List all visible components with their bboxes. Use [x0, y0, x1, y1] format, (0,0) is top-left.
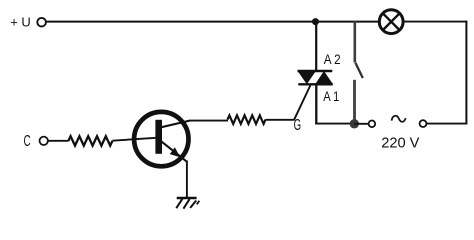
terminal +U [37, 18, 46, 27]
svg-text:G: G [294, 117, 302, 134]
wire C to R1 [48, 140, 69, 142]
wire top rail right of lamp [404, 21, 467, 23]
terminal C [40, 137, 48, 145]
AC source tilde [392, 116, 406, 122]
wire R2 to G bend [266, 119, 295, 121]
svg-text:C: C [24, 133, 31, 150]
wire junction to triac A2 [315, 22, 317, 72]
wire stub to AC terminal [354, 123, 368, 125]
terminal AC left [369, 121, 376, 128]
wire top rail left [46, 21, 378, 23]
wire bottom right [426, 123, 467, 125]
svg-text:A 1: A 1 [323, 88, 339, 104]
terminal AC right [420, 120, 427, 127]
resistor R1 [68, 136, 112, 145]
transistor Q1 [134, 112, 190, 166]
wire collector to R2 [189, 120, 228, 122]
svg-text:A 2: A 2 [324, 51, 341, 67]
triac V1 [298, 71, 333, 84]
wire R1 to base [112, 138, 156, 141]
ground [176, 198, 199, 209]
svg-text:220 V: 220 V [381, 135, 419, 152]
junction dot switch / AC [350, 119, 359, 128]
wire emitter to ground [186, 161, 188, 199]
switch S1 upper [353, 21, 356, 63]
wire A1 down [315, 84, 317, 125]
switch S1 lower [353, 80, 356, 124]
wire right edge [465, 21, 467, 125]
resistor R2 [228, 115, 266, 124]
lamp [379, 10, 403, 34]
wire gate diagonal [294, 85, 311, 121]
junction dot top rail [312, 18, 319, 25]
svg-text:+ U: + U [10, 15, 31, 30]
wire A1 to switch junction [315, 123, 354, 125]
switch S1 blade [355, 63, 362, 78]
